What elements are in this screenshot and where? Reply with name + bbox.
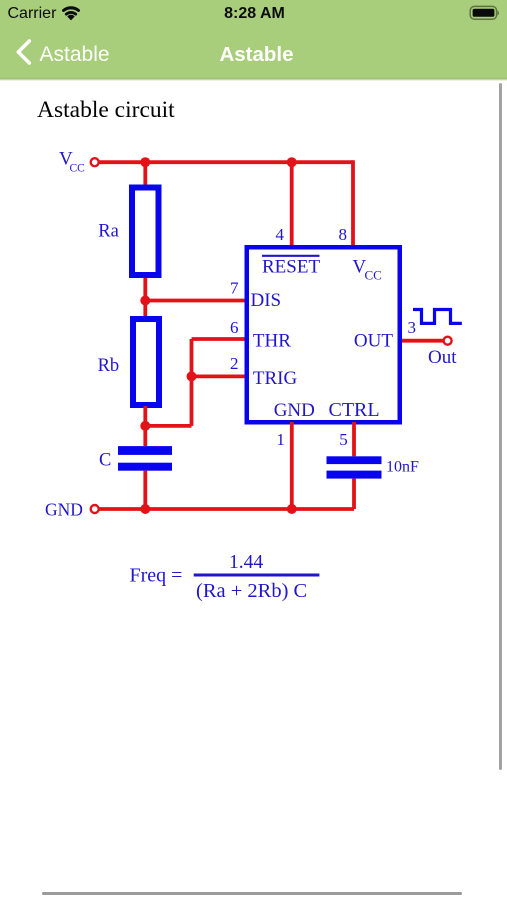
wire pin 5 vertical top bbox=[352, 422, 356, 456]
pin 8 number bbox=[339, 225, 348, 244]
pin label THR bbox=[253, 331, 291, 352]
pin 3 number bbox=[408, 318, 417, 337]
wire Rb bottom to capacitor C bbox=[143, 406, 147, 446]
svg-text:10nF: 10nF bbox=[386, 459, 419, 476]
wire Vcc top rail bbox=[100, 160, 354, 164]
capacitor 10nF plate 1 bbox=[327, 456, 382, 464]
svg-text:DIS: DIS bbox=[251, 290, 282, 311]
svg-text:7: 7 bbox=[230, 279, 239, 298]
label 10nF bbox=[386, 459, 419, 476]
wire Vcc to Ra bbox=[143, 162, 147, 186]
svg-text:RESET: RESET bbox=[262, 257, 320, 278]
pin 1 number bbox=[276, 430, 285, 449]
wire TRIG branch horizontal bbox=[145, 424, 191, 428]
wire pin 8 vertical bbox=[351, 160, 355, 247]
svg-text:1.44: 1.44 bbox=[229, 552, 263, 573]
svg-text:GND: GND bbox=[45, 500, 83, 520]
wire pin 4 vertical bbox=[290, 162, 294, 247]
right separator line bbox=[499, 83, 502, 770]
svg-text:6: 6 bbox=[230, 318, 239, 337]
svg-text:Freq =: Freq = bbox=[130, 565, 183, 587]
svg-text:(Ra + 2Rb) C: (Ra + 2Rb) C bbox=[196, 580, 307, 602]
wire pin 5 vertical bottom bbox=[352, 479, 356, 509]
svg-text:THR: THR bbox=[253, 331, 291, 352]
svg-text:CTRL: CTRL bbox=[329, 399, 380, 421]
square wave symbol bbox=[413, 310, 462, 324]
wire ground rail bbox=[100, 507, 355, 511]
pin label OUT bbox=[354, 331, 393, 352]
svg-text:2: 2 bbox=[230, 354, 239, 373]
junction TRIG bbox=[187, 371, 197, 381]
svg-text:4: 4 bbox=[276, 225, 285, 244]
bottom separator line bbox=[42, 892, 462, 895]
wire pin 1 vertical bbox=[290, 422, 294, 509]
IC U1 555 timer body bbox=[247, 247, 400, 422]
pin label Vcc inside IC bbox=[352, 257, 381, 283]
node Vcc terminal bbox=[91, 158, 99, 166]
wire DIS pin 7 bbox=[145, 299, 245, 303]
formula numerator 1.44 bbox=[229, 552, 263, 573]
junction at Ra top bbox=[140, 157, 150, 167]
pin 7 number bbox=[230, 279, 239, 298]
back chevron bbox=[18, 41, 29, 63]
pin 5 number bbox=[339, 430, 348, 449]
svg-text:CC: CC bbox=[365, 268, 382, 283]
label Rb bbox=[98, 356, 120, 376]
pin label GND inside IC bbox=[274, 400, 315, 421]
pin 2 number bbox=[230, 354, 239, 373]
formula denominator bbox=[196, 580, 307, 602]
label C bbox=[99, 451, 111, 471]
wire THR/TRIG vertical bbox=[190, 339, 194, 426]
formula Freq label bbox=[130, 565, 183, 587]
svg-text:1: 1 bbox=[276, 430, 285, 449]
label Ra bbox=[98, 222, 119, 242]
status bar icons bbox=[0, 0, 507, 80]
svg-text:GND: GND bbox=[274, 400, 315, 421]
label Vcc (supply) bbox=[59, 149, 85, 175]
wire Ra bottom to junction bbox=[143, 278, 147, 317]
svg-text:CC: CC bbox=[70, 163, 86, 175]
status bar + nav bar green background bbox=[0, 0, 507, 81]
capacitor C plate 1 bbox=[118, 446, 172, 455]
svg-text:Rb: Rb bbox=[98, 356, 120, 376]
svg-text:3: 3 bbox=[408, 318, 417, 337]
label Out bbox=[428, 347, 457, 368]
junction C/ground bbox=[140, 504, 150, 514]
node GND terminal bbox=[91, 505, 99, 513]
pin label CTRL bbox=[329, 399, 380, 421]
page heading bbox=[37, 97, 175, 124]
wire THR pin 6 bbox=[192, 337, 246, 341]
wire OUT pin 3 bbox=[402, 339, 444, 343]
svg-text:TRIG: TRIG bbox=[253, 368, 298, 389]
pin label DIS bbox=[251, 290, 282, 311]
svg-text:OUT: OUT bbox=[354, 331, 393, 352]
pin label RESET with overline bbox=[262, 256, 320, 278]
capacitor 10nF plate 2 bbox=[327, 471, 382, 479]
resistor Rb bbox=[133, 319, 159, 405]
svg-text:5: 5 bbox=[339, 430, 348, 449]
battery icon bbox=[470, 6, 499, 19]
label GND bbox=[45, 500, 83, 520]
wire C bottom bbox=[143, 471, 147, 509]
pin label TRIG bbox=[253, 368, 298, 389]
pin 6 number bbox=[230, 318, 239, 337]
svg-text:Out: Out bbox=[428, 347, 457, 368]
svg-text:C: C bbox=[99, 451, 111, 471]
formula fraction bar bbox=[194, 574, 320, 577]
junction at pin 4 bbox=[287, 157, 297, 167]
node Out terminal bbox=[444, 337, 452, 345]
svg-text:Ra: Ra bbox=[98, 222, 119, 242]
pin 4 number bbox=[276, 225, 285, 244]
wifi icon bbox=[64, 8, 79, 20]
junction pin1/ground bbox=[287, 504, 297, 514]
capacitor C plate 2 bbox=[118, 463, 172, 471]
resistor Ra bbox=[132, 188, 159, 276]
svg-text:8: 8 bbox=[339, 225, 348, 244]
junction Ra/Rb/DIS bbox=[140, 296, 150, 306]
junction Rb/C/TRIG branch bbox=[140, 421, 150, 431]
wire TRIG pin 2 bbox=[192, 374, 246, 378]
